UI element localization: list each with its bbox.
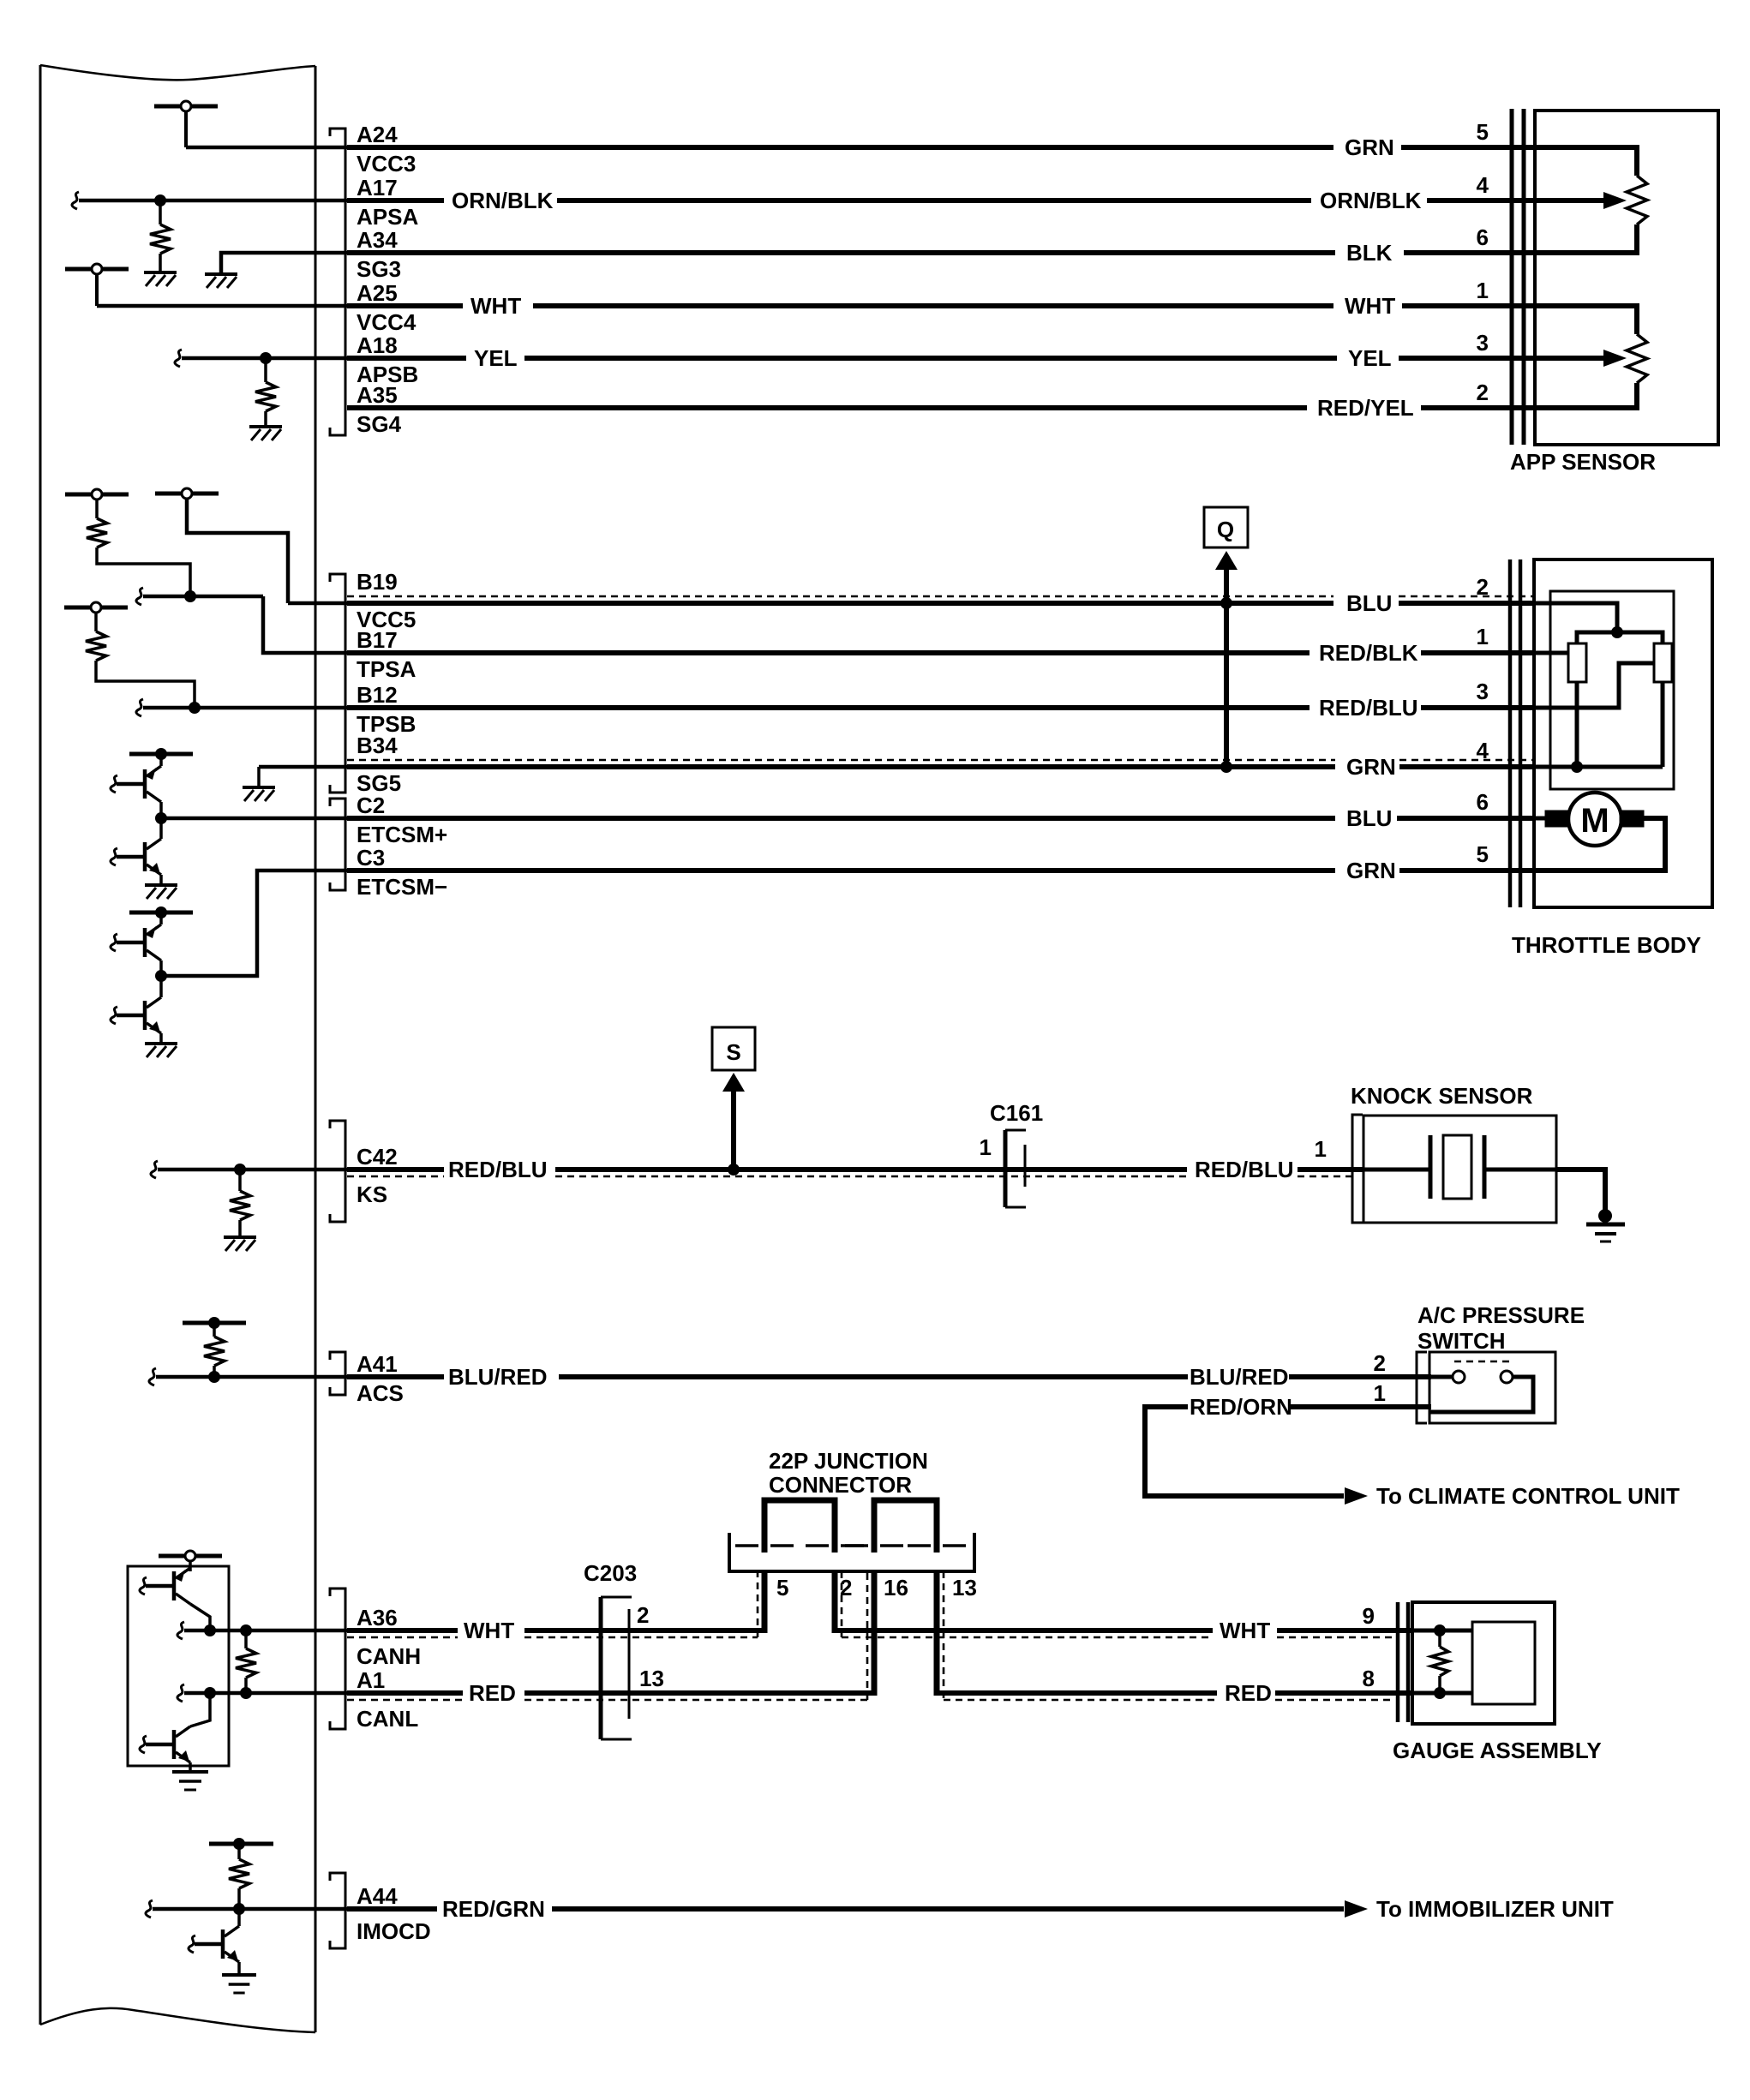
wire A25 WHT long <box>533 303 1333 308</box>
svg-text:KNOCK SENSOR: KNOCK SENSOR <box>1351 1083 1533 1109</box>
svg-text:A44: A44 <box>357 1883 398 1909</box>
svg-text:To CLIMATE CONTROL UNIT: To CLIMATE CONTROL UNIT <box>1376 1483 1680 1509</box>
wire B17 RED/BLK <box>347 650 1310 655</box>
svg-text:B34: B34 <box>357 733 398 758</box>
wire CANH internal <box>177 1622 347 1639</box>
arrow to climate control <box>1345 1487 1368 1505</box>
svg-text:GRN: GRN <box>1346 754 1396 780</box>
node on KS internal <box>234 1164 246 1176</box>
svg-text:APP SENSOR: APP SENSOR <box>1510 449 1656 475</box>
knock sensor bracket <box>1352 1115 1363 1223</box>
wire stub pin 1 TB <box>1421 650 1535 655</box>
wire A41 internal <box>149 1368 347 1385</box>
junction stub pin13 <box>934 1571 940 1696</box>
junction connector jumper arc 5-2 <box>764 1500 835 1553</box>
svg-text:13: 13 <box>952 1575 977 1600</box>
knock sensor piezo element <box>1363 1135 1556 1199</box>
node CANH resistor <box>240 1624 252 1636</box>
A/C pressure switch box <box>1429 1352 1555 1423</box>
wire B19 internal from VCC5 <box>288 601 347 606</box>
svg-text:C42: C42 <box>357 1144 398 1170</box>
ground under KS resistor <box>224 1235 256 1239</box>
svg-text:RED/GRN: RED/GRN <box>442 1896 545 1922</box>
node on B17 internal <box>184 590 196 602</box>
svg-text:22P JUNCTION: 22P JUNCTION <box>769 1448 928 1474</box>
wire stub pin 3 TB <box>1421 705 1535 710</box>
wire stub pin 2 APP <box>1421 405 1536 410</box>
wire A24 GRN <box>347 145 1333 150</box>
svg-text:9: 9 <box>1363 1603 1375 1629</box>
wire stub pin 6 TB <box>1397 816 1535 821</box>
wire A44 internal <box>146 1900 347 1918</box>
svg-text:SWITCH: SWITCH <box>1417 1328 1506 1354</box>
wire to S with arrow <box>722 1073 745 1176</box>
resistor ACS pull-up <box>204 1327 225 1377</box>
junction connector jumper arc 16-13 <box>874 1500 937 1553</box>
svg-text:5: 5 <box>776 1575 788 1600</box>
power node VCC3 internal <box>154 101 218 147</box>
power node CAN driver <box>159 1551 222 1571</box>
svg-text:WHT: WHT <box>470 293 521 319</box>
ground under Q2 <box>145 875 177 899</box>
junction terminal at 892 <box>735 1544 794 1547</box>
wire RED/GRN long <box>552 1906 1344 1912</box>
junction stub pin5 <box>762 1571 768 1633</box>
svg-text:KS: KS <box>357 1182 387 1207</box>
knock sensor box <box>1363 1116 1556 1223</box>
svg-text:5: 5 <box>1477 841 1489 867</box>
svg-text:C161: C161 <box>990 1100 1043 1126</box>
svg-text:2: 2 <box>1374 1350 1386 1376</box>
wire stub pin 4 TB <box>1399 764 1535 769</box>
wire B12 RED/BLU <box>347 705 1310 710</box>
svg-text:ETCSM+: ETCSM+ <box>357 822 447 847</box>
transistor Q3 PNP ETCSM- <box>111 912 161 960</box>
ECM connector bracket B (B19-SG5) <box>330 574 345 793</box>
ECM connector bracket A (A24-A35) <box>330 129 345 435</box>
svg-text:YEL: YEL <box>1348 345 1392 371</box>
svg-text:RED/BLU: RED/BLU <box>1319 695 1418 721</box>
svg-text:1: 1 <box>980 1134 992 1160</box>
resistor IMOCD pull-up <box>229 1848 249 1909</box>
ECM connector bracket A44 <box>330 1873 345 1948</box>
svg-text:6: 6 <box>1477 224 1489 250</box>
svg-text:1: 1 <box>1477 624 1489 649</box>
wire TPSB elbow <box>96 661 195 708</box>
svg-text:RED: RED <box>469 1680 516 1706</box>
svg-text:RED/BLU: RED/BLU <box>1195 1157 1294 1182</box>
gauge assembly box <box>1412 1602 1555 1724</box>
svg-text:BLU: BLU <box>1346 590 1392 616</box>
svg-text:5: 5 <box>1477 119 1489 145</box>
wire stub pin 4 APP <box>1427 198 1536 203</box>
wire RED/ORN elbow to climate <box>1145 1407 1344 1496</box>
TPS element 1 <box>1568 643 1586 682</box>
wire SG3 internal <box>221 253 347 272</box>
wire A44 RED/GRN segment <box>347 1906 437 1912</box>
wire A34 BLK <box>347 250 1335 255</box>
wire Q1 collector to C2 <box>159 802 163 818</box>
svg-text:1: 1 <box>1374 1380 1386 1406</box>
shield dash at junction WHT <box>758 1571 842 1637</box>
connector C161 <box>1005 1130 1026 1207</box>
gauge termination resistor <box>1431 1630 1448 1693</box>
svg-text:CANL: CANL <box>357 1706 418 1732</box>
A/C switch contacts <box>1429 1361 1533 1412</box>
APP sensor box <box>1535 111 1718 445</box>
wire C3 internal elbow <box>165 871 347 976</box>
svg-text:BLU/RED: BLU/RED <box>1190 1364 1289 1390</box>
wire TPSA elbow <box>97 547 190 596</box>
TPS inner box <box>1550 591 1674 789</box>
TPS wiring pin1 <box>1522 651 1568 655</box>
ground under Q6 <box>172 1762 208 1790</box>
node CANH collector <box>204 1624 216 1636</box>
resistor APSA pull-down <box>150 200 171 271</box>
ground under Q7 <box>222 1962 256 1993</box>
TPS top link <box>1577 626 1663 643</box>
wire A35 RED/YEL <box>347 405 1307 410</box>
wire B17 elbow to pin <box>263 596 347 653</box>
APP sensor wiper arrow 1 <box>1525 192 1627 209</box>
wire stub pin 5 TB <box>1399 868 1535 873</box>
svg-text:A41: A41 <box>357 1351 398 1377</box>
wire Q3 collector to node <box>159 960 163 976</box>
svg-text:VCC3: VCC3 <box>357 151 416 176</box>
node ETCSM+ midpoint <box>155 812 167 824</box>
APP sensor potentiometer 2 <box>1525 306 1647 408</box>
node CANL resistor <box>240 1687 252 1699</box>
arrow to immobilizer <box>1345 1900 1368 1918</box>
wire RED to C203 <box>524 1693 874 1700</box>
shield dash at junction RED <box>867 1571 944 1700</box>
wire A36 WHT segment <box>347 1630 458 1637</box>
svg-text:GAUGE ASSEMBLY: GAUGE ASSEMBLY <box>1393 1738 1602 1763</box>
svg-text:A/C PRESSURE: A/C PRESSURE <box>1417 1302 1585 1328</box>
transistor Q6 NPN CANL <box>140 1693 210 1762</box>
transistor Q1 PNP ETCSM+ <box>111 754 161 802</box>
svg-text:13: 13 <box>639 1666 664 1691</box>
node on B12 internal <box>189 702 201 714</box>
wire B19 BLU with shield dash <box>347 596 1333 603</box>
wire RED junction to gauge <box>937 1693 1217 1700</box>
power node chain B12 internal <box>64 602 128 631</box>
svg-text:CANH: CANH <box>357 1643 421 1669</box>
wire RED/BLU to knock sensor <box>1298 1170 1363 1176</box>
svg-text:2: 2 <box>637 1602 649 1628</box>
wire stub pin 1 APP <box>1402 303 1536 308</box>
ground under APSA resistor <box>144 271 177 274</box>
svg-text:8: 8 <box>1363 1666 1375 1691</box>
wire WHT to C203 <box>524 1630 764 1637</box>
wire C42 RED/BLU long <box>555 1170 1187 1176</box>
throttle body box <box>1534 559 1712 907</box>
wire A41 BLU/RED long <box>559 1374 1188 1379</box>
wire C42 RED/BLU segment <box>347 1170 444 1176</box>
svg-text:BLK: BLK <box>1346 240 1393 266</box>
wire A24 internal <box>186 146 347 150</box>
transistor Q2 NPN ETCSM+ <box>111 818 161 875</box>
svg-text:1: 1 <box>1315 1136 1327 1162</box>
TPS wiring pin4 <box>1522 682 1663 773</box>
wire WHT junction to gauge <box>835 1630 1213 1637</box>
option connector Q box <box>1204 507 1248 547</box>
A/C switch bracket <box>1417 1352 1427 1423</box>
svg-text:SG4: SG4 <box>357 411 402 437</box>
wire RED/ORN to switch <box>1289 1404 1431 1409</box>
junction stub pin16 <box>872 1571 878 1696</box>
svg-text:S: S <box>726 1039 740 1065</box>
ECM connector bracket C42 <box>330 1121 345 1222</box>
wire A18 YEL long <box>524 356 1337 361</box>
svg-text:A1: A1 <box>357 1667 385 1693</box>
svg-text:A36: A36 <box>357 1605 398 1630</box>
svg-text:VCC4: VCC4 <box>357 309 417 335</box>
resistor KS pull <box>230 1170 250 1235</box>
CAN driver box <box>128 1566 229 1766</box>
svg-text:A24: A24 <box>357 122 398 147</box>
junction terminal at 1093 <box>908 1544 966 1547</box>
svg-text:YEL: YEL <box>474 345 518 371</box>
ground SG3 <box>205 272 237 276</box>
svg-text:WHT: WHT <box>1345 293 1395 319</box>
wire BLU/RED to switch <box>1289 1374 1431 1379</box>
ground SG5 <box>243 786 275 789</box>
wire B12 internal <box>136 699 347 716</box>
CAN termination resistor <box>236 1630 256 1693</box>
wire C2 BLU <box>347 816 1335 821</box>
connector C203 <box>601 1597 632 1739</box>
svg-text:6: 6 <box>1477 789 1489 815</box>
node Q-BLU <box>1220 597 1232 609</box>
gauge assembly connector bar <box>1398 1602 1408 1722</box>
power node chain B17 internal <box>65 489 129 518</box>
wire stub pin 6 APP <box>1404 250 1536 255</box>
transistor Q7 NPN IMOCD <box>189 1909 239 1962</box>
ECM connector bracket CAN <box>330 1588 345 1729</box>
wire A25 WHT segment <box>347 303 463 308</box>
resistor APSB pull-down <box>255 358 276 425</box>
knock sensor ground <box>1556 1170 1625 1241</box>
svg-text:A17: A17 <box>357 175 398 200</box>
svg-text:ACS: ACS <box>357 1380 404 1406</box>
svg-text:SG3: SG3 <box>357 256 401 282</box>
wire KS internal <box>151 1161 347 1178</box>
svg-text:RED: RED <box>1225 1680 1272 1706</box>
ground under Q4 <box>145 1033 177 1057</box>
resistor TPSA pull-up <box>87 518 107 547</box>
node on A17 <box>154 194 166 206</box>
wire A17 ORN/BLK segment <box>347 198 444 203</box>
svg-text:4: 4 <box>1477 172 1489 198</box>
power bar IMOCD internal <box>209 1838 273 1850</box>
wire A17 internal <box>72 192 347 209</box>
throttle body connector bar <box>1510 559 1520 907</box>
wire B34 GRN with shield dash <box>347 760 1335 767</box>
transistor Q4 NPN ETCSM- <box>111 976 161 1033</box>
junction terminal at 974 <box>806 1544 864 1547</box>
svg-text:2: 2 <box>1477 380 1489 405</box>
node CANL collector <box>204 1687 216 1699</box>
svg-text:C203: C203 <box>584 1560 637 1586</box>
power node VCC5 internal <box>155 488 288 603</box>
gauge unit inner box <box>1472 1622 1535 1704</box>
node Q-GRN <box>1220 761 1232 773</box>
wire A1 RED segment <box>347 1693 463 1700</box>
junction stub pin2 <box>832 1571 838 1633</box>
svg-text:B12: B12 <box>357 682 398 708</box>
wire stub pin 2 TB <box>1399 601 1535 606</box>
junction connector body <box>729 1533 974 1571</box>
wire A41 BLU/RED segment <box>347 1374 444 1379</box>
node on A18 <box>260 352 272 364</box>
TPS wiring pin3 <box>1522 663 1654 708</box>
svg-text:To IMMOBILIZER UNIT: To IMMOBILIZER UNIT <box>1376 1896 1614 1922</box>
supply rail ETCSM+ driver <box>129 748 193 760</box>
svg-text:RED/ORN: RED/ORN <box>1190 1394 1292 1420</box>
svg-text:APSA: APSA <box>357 204 418 230</box>
gauge internal wiring <box>1410 1624 1472 1699</box>
shield node S box <box>712 1027 755 1070</box>
svg-text:GRN: GRN <box>1346 858 1396 883</box>
wire A18 YEL segment <box>347 356 466 361</box>
wire stub pin 5 APP <box>1401 145 1536 150</box>
resistor TPSB pull-up <box>86 631 106 661</box>
svg-text:3: 3 <box>1477 679 1489 704</box>
svg-text:BLU: BLU <box>1346 805 1392 831</box>
ECM outline (torn box) <box>40 65 315 2032</box>
ground under APSB resistor <box>249 425 282 428</box>
svg-text:M: M <box>1580 802 1609 840</box>
junction terminal at 1020 <box>845 1544 903 1547</box>
svg-text:CONNECTOR: CONNECTOR <box>769 1472 912 1498</box>
wire WHT stub gauge <box>1277 1630 1414 1637</box>
svg-text:4: 4 <box>1477 738 1489 763</box>
svg-text:B17: B17 <box>357 627 398 653</box>
wire A25 internal <box>97 304 347 308</box>
svg-text:WHT: WHT <box>1220 1618 1270 1643</box>
wire CANL internal <box>177 1684 347 1702</box>
power bar ACS internal <box>183 1317 246 1329</box>
svg-text:A35: A35 <box>357 382 398 408</box>
svg-text:ORN/BLK: ORN/BLK <box>452 188 554 213</box>
svg-text:1: 1 <box>1477 278 1489 303</box>
wire RED stub gauge <box>1275 1693 1414 1700</box>
svg-text:TPSA: TPSA <box>357 656 417 682</box>
wire C2 internal <box>165 817 347 821</box>
svg-text:B19: B19 <box>357 569 398 595</box>
APP sensor wiper arrow 2 <box>1525 350 1627 367</box>
svg-text:C2: C2 <box>357 793 385 818</box>
svg-text:16: 16 <box>884 1575 908 1600</box>
wire C3 GRN <box>347 868 1335 873</box>
svg-text:ETCSM−: ETCSM− <box>357 874 447 900</box>
svg-text:RED/YEL: RED/YEL <box>1317 395 1414 421</box>
TPS element 2 <box>1654 643 1672 682</box>
svg-text:A25: A25 <box>357 280 398 306</box>
power node VCC4 internal <box>65 264 129 306</box>
TPS wiring pin2 <box>1522 603 1617 632</box>
supply rail ETCSM- driver <box>129 906 193 918</box>
wire to Q with arrow <box>1215 551 1238 767</box>
svg-text:RED/BLU: RED/BLU <box>448 1157 548 1182</box>
APP sensor connector bar <box>1512 109 1524 445</box>
svg-text:ORN/BLK: ORN/BLK <box>1320 188 1422 213</box>
svg-text:A34: A34 <box>357 227 398 253</box>
wire A17 ORN/BLK long <box>557 198 1311 203</box>
wire A18 internal <box>175 350 347 367</box>
transistor Q5 PNP CANH <box>140 1568 210 1630</box>
wire SG5 internal <box>259 767 347 787</box>
svg-text:3: 3 <box>1477 330 1489 356</box>
ECM connector bracket A41 <box>330 1352 345 1395</box>
svg-text:C3: C3 <box>357 845 385 871</box>
node ETCSM- midpoint <box>155 970 167 982</box>
svg-text:A18: A18 <box>357 332 398 358</box>
APP sensor potentiometer 1 <box>1525 147 1647 253</box>
svg-text:RED/BLK: RED/BLK <box>1319 640 1418 666</box>
throttle motor M <box>1522 793 1665 871</box>
svg-text:Q: Q <box>1217 517 1234 542</box>
svg-text:2: 2 <box>1477 574 1489 600</box>
svg-text:GRN: GRN <box>1345 135 1394 160</box>
svg-text:THROTTLE BODY: THROTTLE BODY <box>1512 932 1701 958</box>
wire stub pin 3 APP <box>1399 356 1536 361</box>
svg-text:IMOCD: IMOCD <box>357 1918 431 1944</box>
svg-text:BLU/RED: BLU/RED <box>448 1364 548 1390</box>
svg-text:WHT: WHT <box>464 1618 514 1643</box>
wire B17 internal <box>136 588 263 605</box>
ECM connector bracket C (C2-C3) <box>330 799 345 890</box>
